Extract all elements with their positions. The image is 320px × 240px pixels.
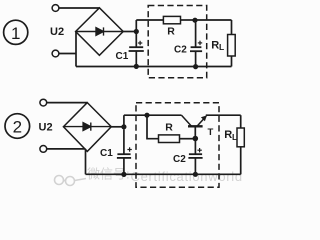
dashed box (filter section, circuit 1) [148, 6, 207, 78]
wire bridge right corner to node N5 [111, 126, 124, 128]
circled number 1 [4, 20, 28, 44]
capacitor C2 (circuit 1, electrolytic) [190, 23, 202, 67]
node N3 (C1 to bottom rail junction) [134, 64, 139, 69]
node N2 (output node, circuit 1) [192, 18, 197, 23]
node N9 (C2 to bottom rail junction, circuit 2) [193, 172, 198, 177]
svg-text:R: R [165, 121, 173, 133]
bridge rectifier VD2 (diamond, circuit 2) [63, 103, 111, 152]
wire terminal B1 to left-corner vertical [59, 53, 76, 55]
svg-text:L: L [232, 132, 237, 142]
svg-text:T: T [208, 127, 214, 138]
terminal A1 (AC input top, circuit 1) [52, 5, 59, 12]
wire bridge left corner down to bottom rail [75, 32, 77, 67]
bridge rectifier VD1 (diamond, circuit 1) [76, 8, 124, 56]
dashed box (electronic filter section, circuit 2) [136, 103, 219, 188]
terminal B1 (AC input bottom, circuit 1) [52, 50, 59, 57]
resistor R (circuit 1) [163, 16, 180, 23]
svg-text:1: 1 [11, 24, 20, 43]
wire base lead up from node N7 [194, 127, 196, 138]
resistor R (circuit 2) [159, 135, 180, 143]
svg-text:U2: U2 [39, 121, 53, 133]
diode inside bridge VD1 [76, 27, 124, 35]
resistor RL (circuit 1, load) [228, 20, 236, 67]
wire top rail to transistor collector [124, 114, 182, 116]
wire terminal A1 to bridge top corner [59, 7, 99, 9]
wire emitter to RL branch (top rail right segment) [206, 114, 241, 116]
wire node N5 up to top rail [123, 115, 125, 127]
node N5 (bridge output +, circuit 2) [121, 124, 126, 129]
svg-text:C2: C2 [174, 44, 187, 55]
svg-text:R: R [167, 26, 175, 38]
wire bottom rail (circuit 1) [76, 66, 232, 68]
svg-text:C1: C1 [100, 148, 113, 159]
wire node N1 up to top rail [135, 20, 137, 32]
watermark logo (glasses) [55, 176, 87, 186]
node N8 (C1 to bottom rail junction, circuit 2) [121, 172, 126, 177]
svg-text:2: 2 [13, 118, 22, 137]
svg-text:L: L [219, 42, 224, 52]
wire bridge right corner to node N1 [123, 31, 136, 33]
wire terminal A2 to bridge top corner [47, 102, 88, 104]
capacitor C1 (circuit 1, electrolytic) [129, 34, 144, 66]
node N7 (base node, circuit 2) [193, 136, 199, 142]
wire bottom rail (circuit 2) [86, 173, 241, 175]
transistor T (NPN series pass) [182, 115, 207, 126]
wire top rail left segment to R [136, 19, 163, 21]
wire node N6 down to R [147, 115, 159, 139]
wire bridge bottom corner down to bottom rail [85, 149, 87, 174]
diode inside bridge VD2 [63, 123, 111, 131]
circled number 2 [5, 114, 30, 139]
wire R to node N2 [181, 19, 196, 21]
terminal B2 (AC input bottom, circuit 2) [40, 146, 47, 153]
node N1 (bridge output +, circuit 1) [134, 29, 139, 34]
terminal A2 (AC input top, circuit 2) [40, 99, 47, 106]
svg-text:U2: U2 [50, 26, 64, 38]
svg-text:C1: C1 [116, 51, 129, 62]
node N6 (R tap on top rail, circuit 2) [144, 113, 149, 118]
wire terminal B2 to bridge bottom corner [47, 148, 86, 150]
svg-text:Certificationworld: Certificationworld [131, 169, 243, 184]
node N4 (C2 to bottom rail junction) [193, 64, 198, 69]
wire top rail right segment to RL branch [195, 19, 232, 21]
capacitor C1 (circuit 2, electrolytic) [117, 129, 132, 174]
resistor RL (circuit 2, load) [237, 115, 244, 174]
wire R to node N7 [180, 138, 196, 140]
capacitor C2 (circuit 2, electrolytic) [188, 141, 202, 174]
svg-text:C2: C2 [173, 154, 186, 165]
